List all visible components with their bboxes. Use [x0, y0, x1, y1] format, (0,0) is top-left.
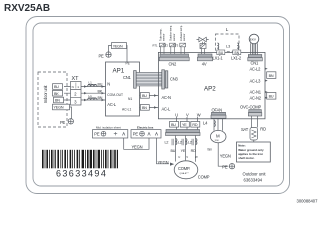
svg-text:BN: BN — [98, 96, 103, 100]
svg-text:BU: BU — [142, 94, 147, 98]
svg-text:fan: fan — [208, 148, 213, 152]
svg-text:AC-L2: AC-L2 — [250, 66, 262, 71]
svg-text:L3: L3 — [226, 45, 230, 49]
svg-text:sensor: sensor — [173, 33, 176, 41]
svg-text:XT: XT — [72, 76, 80, 82]
svg-text:YEGN: YEGN — [220, 154, 231, 159]
svg-text:W: W — [195, 155, 198, 159]
svg-text:AC-L1: AC-L1 — [122, 107, 132, 111]
svg-text:L2: L2 — [165, 140, 169, 144]
svg-text:YE: YE — [181, 149, 186, 153]
svg-text:RD: RD — [260, 127, 266, 132]
svg-text:CN1: CN1 — [123, 75, 132, 80]
svg-text:RD: RD — [192, 123, 198, 127]
svg-text:300088407: 300088407 — [297, 199, 319, 204]
svg-text:COMP.: COMP. — [178, 166, 190, 171]
svg-text:Electric box: Electric box — [137, 125, 154, 129]
svg-text:L1: L1 — [89, 81, 93, 85]
svg-text:AC-L: AC-L — [162, 107, 172, 112]
svg-text:OVC-COMP: OVC-COMP — [240, 105, 262, 110]
svg-text:AP1: AP1 — [113, 68, 125, 75]
svg-text:RT1: RT1 — [153, 44, 159, 48]
svg-text:BK: BK — [54, 92, 59, 96]
svg-text:CN3: CN3 — [170, 76, 179, 81]
svg-text:M: M — [216, 134, 220, 139]
svg-text:L4: L4 — [203, 121, 208, 126]
svg-text:BN: BN — [142, 106, 147, 110]
svg-text:N: N — [72, 85, 74, 89]
svg-text:U: U — [178, 155, 180, 159]
svg-text:BN: BN — [269, 74, 274, 78]
svg-text:BK: BK — [98, 89, 103, 93]
svg-text:Indoor unit: Indoor unit — [43, 85, 48, 103]
svg-text:YEGN: YEGN — [54, 106, 64, 110]
svg-text:PE: PE — [99, 53, 105, 58]
svg-text:PE: PE — [126, 62, 130, 66]
svg-text:YEGN: YEGN — [132, 144, 143, 149]
svg-text:W: W — [197, 112, 201, 117]
svg-text:YEGN: YEGN — [113, 44, 123, 48]
svg-text:AC-L3: AC-L3 — [250, 78, 262, 83]
svg-text:shell motor.: shell motor. — [238, 156, 254, 160]
svg-text:Mid. isolation sheet: Mid. isolation sheet — [96, 125, 121, 129]
svg-text:AC-N2: AC-N2 — [250, 95, 262, 100]
svg-text:63633494: 63633494 — [244, 177, 263, 182]
svg-text:SAT: SAT — [241, 127, 249, 132]
svg-text:L: L — [226, 27, 229, 32]
svg-text:COMP: COMP — [198, 174, 210, 179]
svg-text:YEGN: YEGN — [158, 160, 169, 165]
svg-text:AP2: AP2 — [204, 85, 216, 92]
svg-text:PE: PE — [60, 120, 66, 125]
svg-text:Outdoor unit: Outdoor unit — [243, 172, 267, 177]
svg-text:LX1-2: LX1-2 — [231, 56, 242, 61]
svg-text:N: N — [107, 82, 110, 87]
svg-text:BU: BU — [171, 123, 176, 127]
svg-text:BU: BU — [269, 95, 274, 99]
svg-text:sensor: sensor — [183, 33, 186, 41]
svg-text:AC-N1: AC-N1 — [250, 89, 262, 94]
svg-text:BN: BN — [235, 51, 240, 55]
svg-text:PE: PE — [133, 131, 139, 136]
svg-text:sensor: sensor — [163, 33, 166, 41]
svg-text:LX1-1: LX1-1 — [213, 56, 224, 61]
svg-text:EKV: EKV — [250, 38, 257, 42]
svg-text:BU: BU — [219, 51, 224, 55]
svg-text:YE: YE — [182, 123, 187, 127]
svg-text:L2: L2 — [188, 140, 192, 144]
svg-text:U: U — [175, 112, 178, 117]
svg-text:N1: N1 — [128, 97, 132, 101]
svg-text:V: V — [186, 155, 188, 159]
svg-text:BU: BU — [98, 83, 103, 87]
svg-text:AC-L: AC-L — [107, 102, 117, 107]
svg-text:BU: BU — [171, 149, 176, 153]
svg-text:QXA-B***: QXA-B*** — [180, 172, 190, 175]
svg-text:4V: 4V — [202, 61, 207, 66]
svg-text:63633494: 63633494 — [56, 169, 107, 179]
svg-text:AC-N: AC-N — [162, 95, 172, 100]
svg-text:L1: L1 — [89, 94, 93, 98]
svg-text:BN: BN — [55, 99, 60, 103]
svg-text:L2: L2 — [178, 140, 182, 144]
svg-text:PE: PE — [222, 164, 228, 169]
svg-text:CN2: CN2 — [169, 61, 178, 66]
svg-text:15W: 15W — [215, 140, 219, 142]
svg-text:COM-OUT: COM-OUT — [107, 93, 123, 97]
svg-text:BU: BU — [54, 85, 59, 89]
svg-text:PE: PE — [94, 131, 100, 136]
svg-text:OFAN: OFAN — [212, 108, 223, 113]
svg-text:V: V — [186, 112, 189, 117]
svg-text:CN1: CN1 — [251, 60, 260, 65]
svg-text:RXV25AB: RXV25AB — [4, 3, 50, 14]
svg-text:RD: RD — [191, 149, 197, 153]
